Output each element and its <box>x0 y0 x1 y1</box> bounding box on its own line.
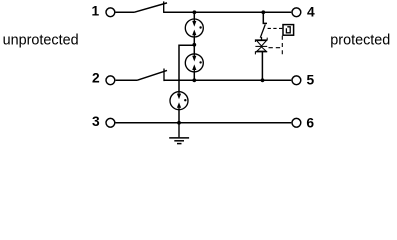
wire TVS branch top lead with thermal disconnect foot <box>263 12 267 23</box>
svg-text:2: 2 <box>92 71 100 86</box>
svg-text:1: 1 <box>92 4 100 19</box>
svg-text:protected: protected <box>330 33 390 49</box>
junction dot line3/F3/ground <box>177 121 181 125</box>
junction dot line2/F2 <box>192 78 196 82</box>
suppressor diode V1 (bidirectional TVS) <box>255 38 267 55</box>
svg-text:unprotected: unprotected <box>3 33 79 49</box>
terminal 6 <box>292 118 301 127</box>
wire TVS bottom lead to line2 <box>261 52 263 81</box>
terminal 4 <box>292 8 301 17</box>
junction dot line2/TVS branch <box>261 78 265 82</box>
wire node M to F3 (crosses line2 without junction) <box>179 45 194 92</box>
status indicator box (optical defect indicator) <box>283 25 294 36</box>
svg-text:5: 5 <box>307 73 315 88</box>
wire line1 right segment (switch to terminal 4) <box>164 11 292 13</box>
dashed mechanical linkage: vertical below indicator <box>281 36 283 55</box>
terminal 5 <box>292 76 301 85</box>
switch S1 blade <box>134 3 167 12</box>
dashed mechanical linkage: TVS to vertical <box>269 47 283 49</box>
wire TVS top stub <box>261 37 263 40</box>
wire GDT column: F2 bottom to line2 <box>193 72 195 81</box>
junction node M between F1 and F2 <box>192 43 196 47</box>
switch S2 blade <box>137 70 167 80</box>
wire GDT column: F1 bottom to F2 top through node M <box>193 37 195 54</box>
gas discharge tube F2 <box>185 54 203 72</box>
svg-text:4: 4 <box>307 5 315 20</box>
thermal disconnect blade <box>260 24 265 37</box>
svg-text:6: 6 <box>306 116 314 131</box>
wire line2 left segment (terminal 2 to switch blade) <box>116 79 137 81</box>
wire GDT column: line1 to F1 top <box>193 12 195 19</box>
junction dot line1/TVS branch <box>261 10 265 14</box>
terminal 3 <box>106 118 115 127</box>
junction dot line1/GDT column <box>193 10 197 14</box>
wire line1 left segment (terminal 1 to switch blade) <box>116 11 135 13</box>
wire line2 right segment (switch to terminal 5) <box>164 79 291 81</box>
dashed mechanical linkage: disconnect to indicator <box>268 27 283 29</box>
terminal 1 <box>106 8 115 17</box>
wire F3 bottom to line3 <box>178 110 180 123</box>
terminal 2 <box>106 76 115 85</box>
svg-text:3: 3 <box>92 114 100 129</box>
switch S2 contact bar <box>163 69 165 82</box>
gas discharge tube F3 <box>170 92 188 110</box>
gas discharge tube F1 <box>185 19 203 37</box>
wire line3 (terminal 3 to terminal 6) <box>116 122 292 124</box>
switch S1 contact bar <box>163 1 165 13</box>
ground symbol <box>169 123 189 144</box>
